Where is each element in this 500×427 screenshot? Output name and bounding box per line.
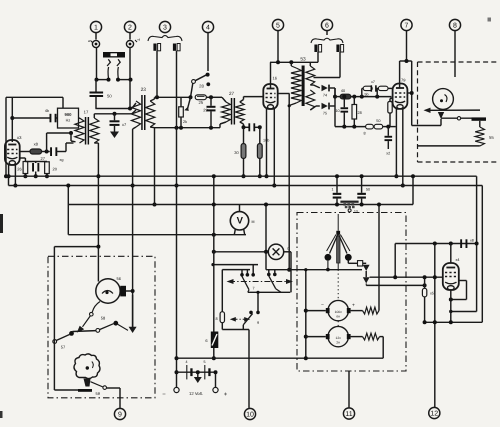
switch bank1 contact a	[240, 270, 244, 277]
linkage dashdot 9	[233, 318, 247, 320]
junction	[256, 291, 259, 294]
wire y269 row	[266, 269, 306, 271]
wire	[67, 205, 69, 235]
wire y270 row	[306, 269, 362, 271]
wire primary bottom	[289, 103, 296, 106]
wire	[389, 113, 391, 127]
capacitor 1b	[248, 123, 255, 131]
svg-text:8: 8	[215, 317, 217, 321]
junction	[212, 356, 216, 360]
junction	[242, 174, 262, 178]
junction	[377, 203, 381, 207]
bus C y204.5	[68, 204, 413, 206]
capacitor terminal 6a	[314, 45, 321, 53]
junction	[209, 95, 213, 99]
junction	[212, 174, 216, 206]
label 9	[257, 321, 259, 325]
svg-text:6: 6	[325, 22, 329, 29]
svg-text:9: 9	[257, 321, 259, 325]
junction	[410, 91, 414, 95]
resistor 25	[195, 95, 206, 105]
junction	[264, 203, 268, 254]
svg-text:58: 58	[101, 316, 106, 321]
wire	[284, 252, 291, 292]
wire	[42, 151, 50, 153]
switch bank2 contact a	[267, 270, 271, 277]
wire x266 drop	[265, 205, 267, 270]
wire y62 row	[270, 61, 318, 63]
horn 59	[74, 354, 100, 379]
vibrator dotted link	[337, 270, 339, 327]
svg-text:26: 26	[17, 167, 22, 172]
triode 13	[443, 258, 460, 290]
svg-text:7: 7	[405, 22, 409, 29]
wire	[62, 97, 64, 108]
horn tab	[84, 379, 91, 387]
fuse 6	[205, 332, 218, 349]
wire cap4b row	[12, 117, 50, 119]
potentiometer 2k	[179, 97, 187, 127]
svg-text:+: +	[352, 303, 355, 309]
svg-text:27: 27	[229, 91, 235, 96]
svg-text:28: 28	[199, 84, 204, 89]
wire cap6a lead	[317, 52, 319, 62]
callout 5	[272, 19, 283, 62]
callout 11	[343, 408, 354, 419]
svg-text:6: 6	[205, 338, 208, 343]
wire	[388, 87, 393, 89]
label 12 Volt	[189, 391, 203, 396]
junction	[212, 250, 216, 254]
svg-text:1: 1	[332, 188, 334, 192]
svg-text:5b: 5b	[365, 93, 369, 97]
svg-text:3: 3	[163, 24, 167, 31]
wire	[132, 110, 136, 114]
wire	[330, 88, 335, 97]
svg-text:−: −	[321, 302, 324, 308]
junction	[128, 107, 132, 111]
capacitor x7b	[371, 80, 377, 92]
svg-text:10: 10	[335, 109, 339, 113]
wire y246 row	[54, 246, 98, 248]
wire	[306, 311, 326, 337]
wire grid to transformer	[47, 133, 71, 152]
svg-text:Hz: Hz	[66, 119, 71, 123]
junction	[423, 283, 427, 287]
wire y97 right	[155, 96, 191, 98]
dynamotor 100v	[321, 300, 355, 320]
wire x379 drop	[378, 205, 380, 311]
wire busC right riser	[412, 176, 414, 204]
wire	[206, 96, 222, 98]
junction	[211, 263, 214, 266]
wire secondary top	[150, 97, 154, 101]
wire	[383, 126, 396, 128]
junction	[242, 125, 262, 129]
capacitor x7	[110, 114, 128, 127]
capacitor x8b	[460, 239, 474, 249]
wire bank pivot row	[248, 290, 290, 293]
junction	[175, 184, 179, 375]
svg-text:x7: x7	[371, 80, 375, 84]
svg-text:53: 53	[300, 57, 306, 63]
svg-text:2A: 2A	[336, 341, 340, 345]
wire	[53, 340, 55, 390]
callout 12 lead	[434, 244, 436, 408]
svg-text:9: 9	[118, 411, 122, 418]
junction	[153, 203, 157, 207]
svg-text:1: 1	[94, 24, 98, 31]
arrow linkage 9	[230, 317, 250, 322]
junction	[342, 125, 356, 129]
svg-text:5: 5	[204, 360, 206, 364]
switch bank1 contact b	[246, 270, 250, 277]
wire	[73, 330, 97, 333]
wire tube7 lead2	[402, 109, 404, 186]
capacitor 4b	[45, 109, 57, 122]
field triangle	[438, 112, 444, 119]
transformer 53 secondary a	[306, 62, 315, 85]
svg-text:M: M	[252, 220, 255, 224]
arrow left linkage	[227, 279, 234, 284]
switch 28	[192, 73, 211, 89]
svg-text:30: 30	[234, 150, 239, 155]
bus B y185.5	[9, 185, 483, 187]
contact triangle 2	[363, 277, 370, 283]
wire y125 speaker	[412, 119, 441, 126]
callout 9	[114, 408, 125, 419]
bus y127.7	[155, 127, 221, 129]
svg-text:x5: x5	[430, 292, 434, 296]
svg-text:a: a	[88, 39, 90, 43]
voltmeter V	[230, 212, 254, 230]
svg-text:20: 20	[53, 167, 58, 172]
junction	[113, 112, 117, 116]
svg-text:16: 16	[273, 76, 278, 81]
cathode box 7	[388, 102, 392, 114]
capacitor terminal 6b	[336, 45, 343, 53]
wire	[129, 79, 131, 109]
resistor x5	[422, 277, 434, 322]
switch S1 blade a	[107, 59, 110, 78]
wire secondary bottom	[150, 126, 154, 129]
transformer 53 primary	[291, 62, 301, 103]
junction	[45, 150, 49, 154]
brace under 6	[311, 38, 343, 43]
transformer 27 primary	[222, 102, 231, 122]
svg-text:4: 4	[186, 360, 188, 364]
transformer 23 core	[141, 87, 147, 130]
junction	[411, 174, 415, 178]
capacitor x2	[385, 127, 393, 156]
switch 9 contacts	[249, 311, 260, 315]
junction	[449, 298, 453, 302]
vibrator arms	[327, 234, 350, 254]
svg-text:x8: x8	[34, 142, 39, 147]
transformer 53 secondary b	[306, 90, 315, 110]
vibrator contact left	[325, 254, 332, 261]
box 9 dashed	[48, 256, 155, 398]
resistor 28b	[352, 97, 362, 127]
terminal 2	[126, 38, 140, 48]
wire	[71, 133, 76, 142]
wire meter stubs	[234, 229, 244, 235]
wire cathode loop	[451, 281, 467, 300]
junction	[95, 78, 133, 82]
pentode 7	[393, 78, 408, 109]
wire	[25, 174, 47, 177]
svg-text:12 Volt.: 12 Volt.	[189, 391, 203, 396]
wire tube x3 lead1	[8, 165, 10, 176]
svg-text:50: 50	[107, 94, 112, 99]
junction	[7, 174, 18, 187]
junction	[155, 95, 159, 99]
junction	[196, 370, 200, 374]
junction	[189, 95, 193, 99]
callout 2	[124, 21, 135, 39]
svg-text:23: 23	[141, 87, 147, 93]
wire y329.5	[222, 329, 249, 331]
wire	[240, 122, 244, 127]
resistor 55	[475, 121, 494, 146]
wire y269.5 stub row	[222, 270, 250, 312]
callout 11 lead	[348, 371, 350, 407]
svg-text:4: 4	[206, 24, 210, 31]
svg-text:40: 40	[341, 89, 345, 93]
triode x3	[5, 135, 22, 165]
transformer 23 secondary	[146, 101, 155, 127]
capacitor 10	[335, 97, 348, 127]
svg-text:12: 12	[430, 410, 438, 417]
wire	[222, 97, 226, 102]
wire y372 row	[177, 371, 216, 373]
horn bar	[78, 389, 101, 396]
svg-text:17: 17	[84, 110, 89, 115]
svg-text:2k: 2k	[183, 120, 187, 124]
svg-text:900: 900	[65, 112, 73, 117]
speaker dashed box	[418, 62, 500, 162]
wire secondary top	[94, 114, 132, 118]
junction	[449, 320, 453, 324]
svg-text:28: 28	[358, 111, 362, 115]
junction	[131, 184, 135, 188]
svg-text:+: +	[224, 392, 228, 398]
wire bus A drop	[476, 176, 478, 311]
box R	[358, 261, 367, 266]
vibrator reed	[336, 231, 340, 270]
wire	[330, 88, 335, 127]
junction	[287, 268, 291, 272]
wire	[56, 117, 57, 119]
wire tube7 lead1	[395, 109, 397, 176]
wire voice line	[430, 109, 480, 111]
wire x411 drop	[411, 61, 413, 126]
resistor R2	[351, 333, 380, 340]
callout 3	[159, 21, 170, 32]
wire	[220, 122, 226, 128]
linkage dashdot	[229, 281, 291, 283]
wire	[132, 295, 134, 327]
switch S1 blade b	[117, 59, 120, 78]
junction	[304, 309, 308, 361]
pentode 5	[263, 76, 277, 110]
terminal plus	[213, 387, 228, 398]
wire y234.7	[68, 234, 246, 236]
junction	[212, 233, 216, 237]
speaker	[433, 89, 454, 110]
svg-text:x7: x7	[122, 122, 127, 127]
transformer 53 core	[300, 57, 306, 107]
wire y126 row	[335, 126, 366, 128]
ground battery	[194, 372, 202, 383]
svg-text:100v: 100v	[335, 310, 343, 314]
pot 2k wiper	[184, 97, 190, 111]
svg-text:29: 29	[203, 108, 208, 113]
junction	[96, 245, 100, 249]
wire secondary bottom	[94, 143, 98, 247]
wire	[56, 143, 73, 152]
junction	[66, 184, 70, 188]
capacitor 29	[203, 97, 215, 127]
svg-text:57: 57	[61, 345, 66, 350]
currentmeter X	[268, 244, 289, 259]
ring	[457, 117, 460, 120]
terminal 1 (aerial)	[88, 39, 100, 48]
junction	[333, 95, 337, 99]
callout 8	[449, 19, 460, 77]
wire bus B drop	[481, 186, 483, 323]
callout 1	[90, 21, 101, 39]
wire	[450, 244, 452, 264]
rc row y88.5	[362, 86, 372, 96]
wire	[54, 389, 78, 391]
svg-text:x8: x8	[470, 239, 474, 243]
svg-text:8: 8	[363, 132, 365, 136]
svg-text:11: 11	[345, 411, 352, 418]
junction	[96, 174, 100, 178]
wire field line	[441, 117, 472, 119]
wire cap3b lead	[176, 51, 178, 388]
junction	[214, 370, 218, 374]
motor tab	[120, 286, 126, 297]
capacitor terminal 3a	[153, 44, 160, 51]
svg-text:55: 55	[489, 135, 494, 140]
wire horn out	[91, 382, 121, 390]
motor bottom lead	[77, 302, 100, 333]
wire cap6b lead	[314, 52, 341, 78]
transformer 24 core	[84, 110, 89, 145]
switch 57	[53, 331, 74, 350]
svg-text:50: 50	[366, 188, 370, 192]
wire cathode	[20, 158, 47, 162]
wire	[327, 261, 329, 270]
wire plate top	[270, 62, 272, 89]
wire cap3a lead	[156, 51, 158, 98]
wire y127 row	[244, 126, 260, 128]
svg-text:74: 74	[323, 94, 327, 98]
wire	[390, 98, 393, 102]
resistor 50b	[374, 119, 383, 129]
wire diode1 feed	[310, 85, 320, 88]
switch bank1 contact c	[251, 265, 255, 277]
switch bank2 contact b	[273, 270, 277, 277]
junction	[304, 268, 307, 271]
wire	[67, 186, 69, 205]
svg-text:27: 27	[41, 156, 46, 161]
junction small	[342, 95, 346, 99]
junction	[394, 174, 398, 178]
transformer 23 primary	[131, 101, 140, 127]
junction	[326, 268, 330, 272]
arrow right linkage	[286, 279, 293, 284]
wire left feedback	[6, 97, 9, 185]
capacitor 27	[32, 156, 46, 176]
wire	[126, 290, 133, 292]
junction	[175, 126, 214, 130]
capacitor terminal 3b	[173, 44, 180, 51]
resistor 20	[45, 162, 58, 174]
wire	[215, 372, 217, 387]
svg-text:8: 8	[453, 22, 457, 29]
svg-text:59: 59	[96, 391, 101, 396]
contact triangle 58	[129, 327, 137, 333]
wire terminal bus	[97, 48, 131, 80]
diode 74	[322, 85, 330, 98]
resistor 40	[335, 89, 391, 99]
svg-text:12v: 12v	[336, 336, 342, 340]
capacitor 1B	[332, 176, 342, 204]
svg-text:6A: 6A	[336, 315, 340, 319]
svg-text:56: 56	[117, 276, 122, 281]
svg-text:75: 75	[323, 112, 327, 116]
brace under 3	[148, 36, 182, 42]
wire grid top y97	[6, 96, 63, 98]
resistor 26	[17, 162, 27, 174]
junction	[393, 275, 397, 279]
wire x289 drop	[288, 94, 290, 270]
capacitor 50	[90, 92, 113, 99]
junction	[4, 174, 8, 178]
contact triangle 1	[363, 265, 370, 271]
junction	[288, 104, 291, 107]
svg-text:V: V	[237, 216, 244, 227]
vibrator contact right	[345, 254, 352, 261]
svg-text:x4: x4	[456, 258, 460, 262]
wire motor feed	[97, 247, 99, 282]
wire	[79, 118, 80, 119]
wire	[376, 88, 379, 96]
wire vib feed	[337, 214, 339, 231]
svg-text:d: d	[287, 247, 289, 251]
wire	[95, 79, 97, 109]
wire xm row	[214, 251, 268, 253]
wire y322 row	[425, 321, 483, 323]
junction	[23, 174, 49, 178]
svg-text:25: 25	[198, 100, 203, 105]
terminal minus	[162, 387, 179, 398]
wire tube5 grid right	[278, 93, 290, 95]
wire y243 row	[395, 243, 476, 245]
svg-text:x3: x3	[17, 135, 22, 140]
wire y285 row	[366, 283, 424, 285]
svg-text:7: 7	[253, 287, 255, 291]
dynamotor 12v	[326, 326, 351, 346]
wire diode2 feed	[310, 106, 320, 110]
wire	[53, 247, 55, 340]
junction	[433, 275, 437, 324]
junction	[352, 95, 379, 99]
svg-text:50: 50	[376, 119, 380, 123]
